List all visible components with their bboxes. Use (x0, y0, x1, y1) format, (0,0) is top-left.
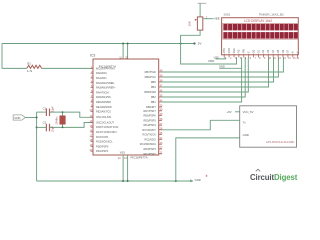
LCD character blocks row 2 (223, 32, 297, 39)
svg-text:RD7/PSP7: RD7/PSP7 (143, 109, 156, 113)
LCD pin stubs (224, 54, 297, 58)
svg-text:4.7k: 4.7k (27, 69, 33, 73)
wire GPS VCC stub (235, 111, 240, 113)
wire GND terminal to crystal column (25, 117, 36, 119)
potentiometer RV1 wiper arrow (195, 19, 198, 21)
svg-text:GND: GND (243, 133, 249, 137)
terminal GND left (13, 115, 25, 120)
wire OSC2 row left segment (37, 126, 46, 128)
junction dot rail vss a (122, 180, 124, 182)
crystal X1 stub top (62, 112, 64, 116)
svg-text:RC0/T1OSO/T1CKI: RC0/T1OSO/T1CKI (96, 125, 119, 129)
LCD display cell area border (223, 23, 298, 39)
svg-text:+5V: +5V (227, 110, 232, 114)
svg-text:VSS: VSS (214, 55, 219, 59)
terminal GND bottom arrow (190, 179, 193, 182)
display DIS1 LCD box (222, 18, 299, 55)
logo CircuitDigest (250, 169, 298, 182)
pin names left column (96, 66, 119, 153)
pin names right column top group (144, 70, 156, 109)
svg-text:RA5/AN4/SS: RA5/AN4/SS (96, 95, 111, 99)
wire LCD E to RB3 row (162, 57, 248, 92)
svg-text:RD6/PSP6: RD6/PSP6 (143, 114, 156, 118)
svg-text:GND: GND (195, 178, 201, 182)
svg-text:LCD DISPLAY 16x2: LCD DISPLAY 16x2 (244, 19, 272, 23)
potentiometer RV1 body (197, 17, 202, 30)
wire LCD RS to RB1 row (162, 68, 242, 102)
wire LCD RW to RB2 row (162, 57, 245, 97)
junction dot rail/pot column (180, 43, 182, 45)
junction dot cap2 tap (36, 126, 38, 128)
wire LCD D5 to RB5 row (162, 57, 274, 82)
svg-text:MCLR/VPP/THV: MCLR/VPP/THV (96, 66, 115, 70)
junction dot crystal top (62, 111, 64, 113)
svg-text:RC7/RX/DT: RC7/RX/DT (142, 128, 156, 132)
resistor R1 (27, 65, 42, 68)
pin stubs right (159, 72, 162, 154)
wire VSS pin 12 to ground rail (122, 155, 124, 181)
svg-text:RD1/PSP1: RD1/PSP1 (96, 149, 109, 153)
LCD character blocks row 1 (223, 24, 297, 31)
svg-text:OSC2/CLKOUT: OSC2/CLKOUT (96, 120, 114, 124)
junction dot rail vss b (127, 180, 129, 182)
svg-text:RD0/PSP0: RD0/PSP0 (96, 144, 109, 148)
node 5V terminal dot (193, 42, 195, 44)
svg-text:10K: 10K (188, 21, 192, 26)
svg-text:RA2/AN2/VREF-: RA2/AN2/VREF- (96, 81, 115, 85)
svg-text:DIS1: DIS1 (224, 13, 231, 17)
svg-text:RE2/AN7/CS: RE2/AN7/CS (96, 110, 111, 114)
wire LCD GND stub (219, 57, 241, 68)
pin stubs left (91, 68, 93, 151)
svg-text:C1: C1 (43, 106, 47, 110)
svg-text:PIC16F877A: PIC16F877A (131, 156, 148, 160)
svg-text:RD5/PSP5: RD5/PSP5 (143, 118, 156, 122)
svg-text:RA0/AN0: RA0/AN0 (96, 71, 107, 75)
svg-text:GND: GND (14, 116, 20, 120)
module GPS box (240, 106, 297, 147)
wire LCD D6 to RB6 row (162, 57, 278, 77)
svg-text:RC2/CCP1: RC2/CCP1 (96, 135, 109, 139)
pin names right column lower group (140, 109, 157, 156)
svg-text:RB7/PGD: RB7/PGD (145, 70, 156, 74)
wire ground rail (37, 180, 193, 182)
LCD pin name labels rotated (223, 48, 300, 53)
svg-text:IC3: IC3 (90, 53, 95, 57)
wire +5V top rail (2, 43, 195, 45)
wire pot wiper to VEE label (203, 18, 214, 20)
svg-text:VEE: VEE (233, 48, 236, 53)
svg-text:RC4/SDI/SDA: RC4/SDI/SDA (140, 142, 156, 146)
svg-text:5V: 5V (198, 42, 202, 46)
wire VSS pin 31 to ground rail (127, 155, 129, 181)
svg-text:VSS: VSS (223, 48, 226, 53)
svg-text:CircuitDigest: CircuitDigest (250, 173, 298, 182)
pin numbers left column (90, 66, 93, 152)
junction dot gnd tap (36, 117, 38, 119)
wire pot column down to LCD VDD feed (181, 44, 237, 65)
svg-text:VEE: VEE (214, 17, 220, 21)
node VDD pin wire 11 (122, 44, 124, 60)
wire pot top terminal (199, 3, 201, 17)
svg-text:RE0/AN5/RD: RE0/AN5/RD (96, 100, 111, 104)
node VDD pin wire 32 (127, 44, 129, 60)
svg-text:OSC1/CLKIN: OSC1/CLKIN (96, 115, 111, 119)
crystal X1 body (60, 116, 66, 124)
svg-text:C2: C2 (43, 120, 47, 124)
svg-text:22pF: 22pF (51, 126, 55, 132)
junction dot rail/VDD a (122, 43, 124, 45)
svg-text:VDD: VDD (208, 59, 215, 63)
svg-text:20MHz: 20MHz (54, 116, 58, 125)
svg-text:RD4/PSP4: RD4/PSP4 (143, 123, 156, 127)
svg-text:VCC_5V: VCC_5V (243, 110, 254, 114)
svg-text:22pF: 22pF (51, 106, 55, 112)
svg-text:RC5/SDO: RC5/SDO (144, 137, 155, 141)
svg-text:RE1/AN6/WR: RE1/AN6/WR (96, 105, 112, 109)
svg-text:R1: R1 (27, 61, 31, 65)
wire LCD D7 to RB7 row (162, 57, 283, 72)
svg-text:RA3/AN3/VREF+: RA3/AN3/VREF+ (96, 86, 116, 90)
svg-text:GPS-MODULE-SKG13BL: GPS-MODULE-SKG13BL (266, 141, 295, 144)
svg-text:GND: GND (219, 65, 225, 69)
wire OSC2 row right segment to IC (50, 123, 93, 128)
svg-text:RB0/INT: RB0/INT (146, 105, 156, 109)
wire LCD VSS stub (215, 57, 225, 59)
svg-text:RC1/T1OSI/CCP2: RC1/T1OSI/CCP2 (96, 130, 117, 134)
wire left drop from rail to MCLR row (1, 44, 3, 69)
svg-text:RC3/SCK/SCL: RC3/SCK/SCL (96, 140, 113, 144)
LCD pin numbers (225, 58, 299, 60)
op IC3 PIC16F877A box (93, 59, 159, 155)
svg-text:RB1: RB1 (151, 100, 157, 104)
svg-text:RC6/TX/CK: RC6/TX/CK (142, 133, 156, 137)
wire OSC1 row right segment to IC (50, 112, 93, 117)
svg-text:TINKER_16X2_B2: TINKER_16X2_B2 (259, 13, 284, 17)
wire GPS GND to ground rail (176, 134, 240, 182)
wire pot bottom loop (181, 30, 201, 43)
crystal X1 stub bottom (62, 124, 64, 127)
svg-text:RS: RS (238, 49, 241, 53)
svg-text:RB5: RB5 (151, 80, 157, 84)
svg-text:VSS: VSS (120, 151, 125, 155)
junction dot crystal bottom (62, 127, 64, 129)
svg-text:VDD: VDD (228, 48, 231, 53)
wire MCLR segment left of R1 (2, 67, 27, 69)
svg-text:RB2: RB2 (151, 95, 157, 99)
power terminal VDD bar above pot (198, 2, 207, 4)
svg-text:RD3/PSP3: RD3/PSP3 (143, 147, 156, 151)
wire LCD D4 to RB4 row (162, 57, 269, 87)
capacitor C2 (46, 124, 49, 132)
junction dot rail/VDD b (127, 43, 129, 45)
mark red tiny (206, 175, 207, 177)
junction dot rail gps gnd (175, 180, 177, 182)
wire MCLR segment R1 to IC (42, 67, 93, 69)
svg-text:RB4: RB4 (151, 85, 157, 89)
pin numbers right column (160, 70, 163, 155)
svg-text:RA4/T0CKI: RA4/T0CKI (96, 90, 109, 94)
svg-text:RB3/PGM: RB3/PGM (144, 90, 155, 94)
capacitor C1 (46, 109, 49, 117)
svg-text:RB6/PGC: RB6/PGC (145, 75, 156, 79)
svg-text:RD2/PSP2: RD2/PSP2 (143, 152, 156, 156)
wire crystal column vertical to ground rail (36, 112, 38, 181)
wire RC7 RX stair to GPS Tx (162, 120, 240, 130)
svg-text:RA1/AN1: RA1/AN1 (96, 76, 107, 80)
wire OSC1 row left segment (37, 111, 46, 113)
